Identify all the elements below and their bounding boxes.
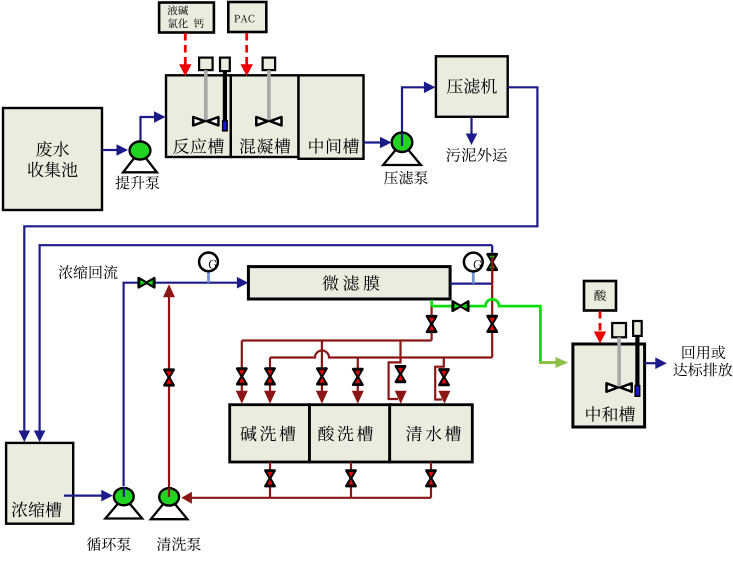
wire: manifold1 drop into acid tank [321,341,323,393]
wire: membrane outlet right side [450,283,492,285]
valve: retentate drop valve [488,316,497,332]
gauge: feed pressure gauge [207,270,210,283]
wire: collection pool to lift pump [102,149,118,151]
wire: manifold2 jog drop into clean water tank [435,358,444,400]
pump: circulation pump 循环泵 [105,497,142,519]
dashed feed: caustic/CaCl2 into reaction tank [184,33,187,65]
wire: manifold1 drop into alkali tank [241,341,243,393]
valve: manifold2 clean water valve [439,369,448,385]
mixer: coagulation tank agitator [263,58,276,71]
valve: manifold1 clean water valve [396,366,405,382]
microfiltration membrane 微滤膜 [248,267,450,299]
valve: clean water tank drain valve [426,471,435,487]
wire: CIP manifold 2 with hop [270,351,492,358]
reaction tank 反应槽 [166,75,231,157]
tank: waste water collection pool 废水收集池 [3,108,102,210]
wire: cleaning pump riser to membrane feed [168,290,170,497]
alkali wash tank 碱洗槽 [230,405,310,462]
gauge: retentate pressure gauge [472,270,475,284]
wire: sludge out arrow [470,117,472,134]
valve: recirculation line valve (green) [139,278,155,287]
wire: neutralization tank outlet [645,362,657,364]
chemical feed box 液碱/氯化钙 [159,3,214,33]
wire: retentate drop between valve and junction [491,270,493,284]
wire: concentrate tank to circulation pump [64,495,103,497]
valve: permeate line valve (green) [453,302,469,311]
valve: manifold2 acid valve [353,369,362,385]
filter press 压滤机 [436,56,508,117]
pump: cleaning pump 清洗泵 [151,497,188,519]
acid feed box 酸 [584,281,616,311]
chemical feed box PAC [228,2,266,32]
valve: manifold1 alkali valve [237,369,246,385]
wire: retentate line overlay through top valve [491,257,493,284]
wire: membrane concentrate return loop 浓缩回流 [40,245,493,431]
neutralization tank 中和槽 [573,344,645,427]
wire: manifold2 drop into acid tank [357,358,359,393]
valve: alkali tank drain valve [265,471,274,487]
coagulation tank 混凝槽 [231,75,299,157]
acid wash tank 酸洗槽 [310,405,390,462]
intermediate tank 中间槽 [299,75,364,159]
wire: filter pump to filter press [402,87,426,146]
wire: membrane feed line [124,283,239,486]
valve: retentate top valve (green inner, vertical) [488,254,497,270]
wire: lift pump to reaction tank [141,117,157,146]
valve: manifold2 alkali valve [265,369,274,385]
valve: cleaning pump riser valve [164,370,173,386]
dashed feed: PAC into coagulation tank [245,33,248,65]
wire: intermediate tank to filter pump [364,141,383,143]
wire: membrane retentate riser (blue above valve) [491,245,493,256]
wire: CIP manifold 1 [242,339,432,341]
wire: membrane permeate stub [430,300,433,306]
probe: neutralization tank pH probe [633,321,642,336]
wire: membrane bottom drain to manifold 1 [431,306,433,340]
mixer: neutralization tank agitator [612,323,626,337]
wire: filter press overflow return loop [24,87,537,431]
concentrate tank 浓缩槽 [6,443,73,524]
valve: acid tank drain valve [346,471,355,487]
wire: clean water tank bottom drain [430,462,432,498]
wire: manifold2 drop into alkali tank [269,358,271,393]
valve: membrane drain valve [427,316,436,332]
wire: retentate vertical down to CIP manifold 2 [491,284,493,358]
pump: filter press pump 压滤泵 [383,142,421,165]
dashed feed: acid into neutralization tank [599,311,602,333]
wire: permeate inlet arrow (olive) [539,361,557,364]
wire: manifold1 jog drop into clean water tank [389,341,401,400]
wire: CIP suction return to cleaning pump [190,497,431,499]
pump: lift pump 提升泵 [123,151,157,173]
wire: alkali tank bottom drain [269,462,271,498]
wire: permeate line to neutralization tank with hop [432,299,541,362]
probe: reaction tank pH probe [220,58,230,72]
mixer: reaction tank agitator [199,58,213,71]
valve: manifold1 acid valve [317,369,326,385]
wire: acid tank bottom drain [350,462,352,498]
clean water tank 清水槽 [390,405,473,462]
